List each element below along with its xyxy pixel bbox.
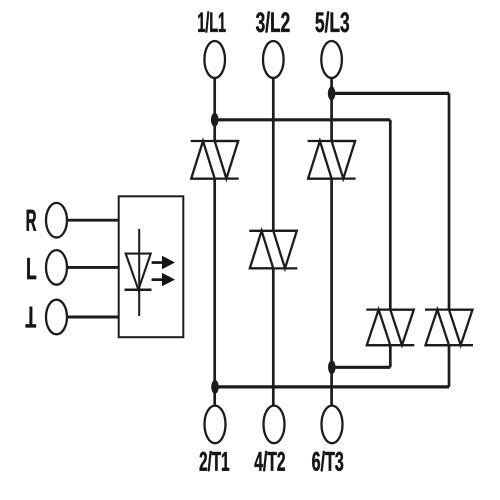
wire R to box: [67, 219, 120, 222]
wire right vertical to triac Q5: [448, 93, 451, 309]
LED arrow 2: [152, 273, 175, 286]
wire L3 vertical top: [330, 78, 333, 141]
label 1/L1: [198, 12, 225, 33]
terminal 3/L2: [263, 41, 284, 78]
LED D1 triangle: [126, 254, 151, 290]
junction dot on T1 line: [211, 380, 219, 394]
wire L to box: [67, 266, 120, 269]
wire triac Q4 bottom: [389, 345, 392, 367]
wire vertical to triac Q4: [389, 120, 392, 310]
wire bus L3 to right: [332, 92, 449, 95]
label 5/L3: [316, 12, 350, 33]
terminal 4/T2: [264, 406, 285, 444]
wire L1-T1 vertical: [213, 179, 216, 406]
triac Q4: [366, 310, 414, 346]
wire L1 vertical top: [213, 78, 216, 141]
LED cathode bar: [125, 288, 152, 291]
terminal 5/L3: [321, 41, 342, 78]
triac Q2: [249, 231, 297, 269]
label 2/T1: [200, 451, 230, 471]
wire bus L1 to right: [215, 118, 391, 121]
junction dot on L1 line: [211, 113, 219, 127]
wire bus to T1: [215, 385, 449, 388]
wire L3-T3 vertical: [330, 179, 333, 406]
terminal 6/T3: [322, 406, 343, 444]
LED arrow 1: [152, 256, 175, 269]
terminal 1/L1: [204, 41, 225, 78]
LED stem wire: [138, 229, 140, 316]
wire L2 vertical top: [272, 78, 275, 231]
junction dot on L3 line: [328, 87, 336, 101]
triac Q5: [425, 310, 473, 346]
junction dot on T3 line: [328, 360, 336, 374]
terminal 2/T1: [205, 406, 226, 444]
triac Q3: [308, 141, 356, 179]
terminal L: [46, 250, 67, 285]
label 4/T2: [255, 451, 285, 471]
ground symbol: [25, 307, 36, 326]
wire bus to T3: [332, 366, 390, 369]
wire ground to box: [67, 316, 120, 319]
label 6/T3: [312, 451, 343, 471]
terminal R: [46, 203, 67, 238]
triac Q1: [191, 141, 239, 179]
label R: [27, 210, 37, 231]
control box U1: [119, 196, 184, 337]
label 3/L2: [256, 12, 290, 33]
wire L2-T2 vertical: [272, 268, 275, 405]
terminal ground: [46, 300, 67, 335]
label L: [27, 258, 36, 279]
wire triac Q5 bottom: [448, 345, 451, 387]
